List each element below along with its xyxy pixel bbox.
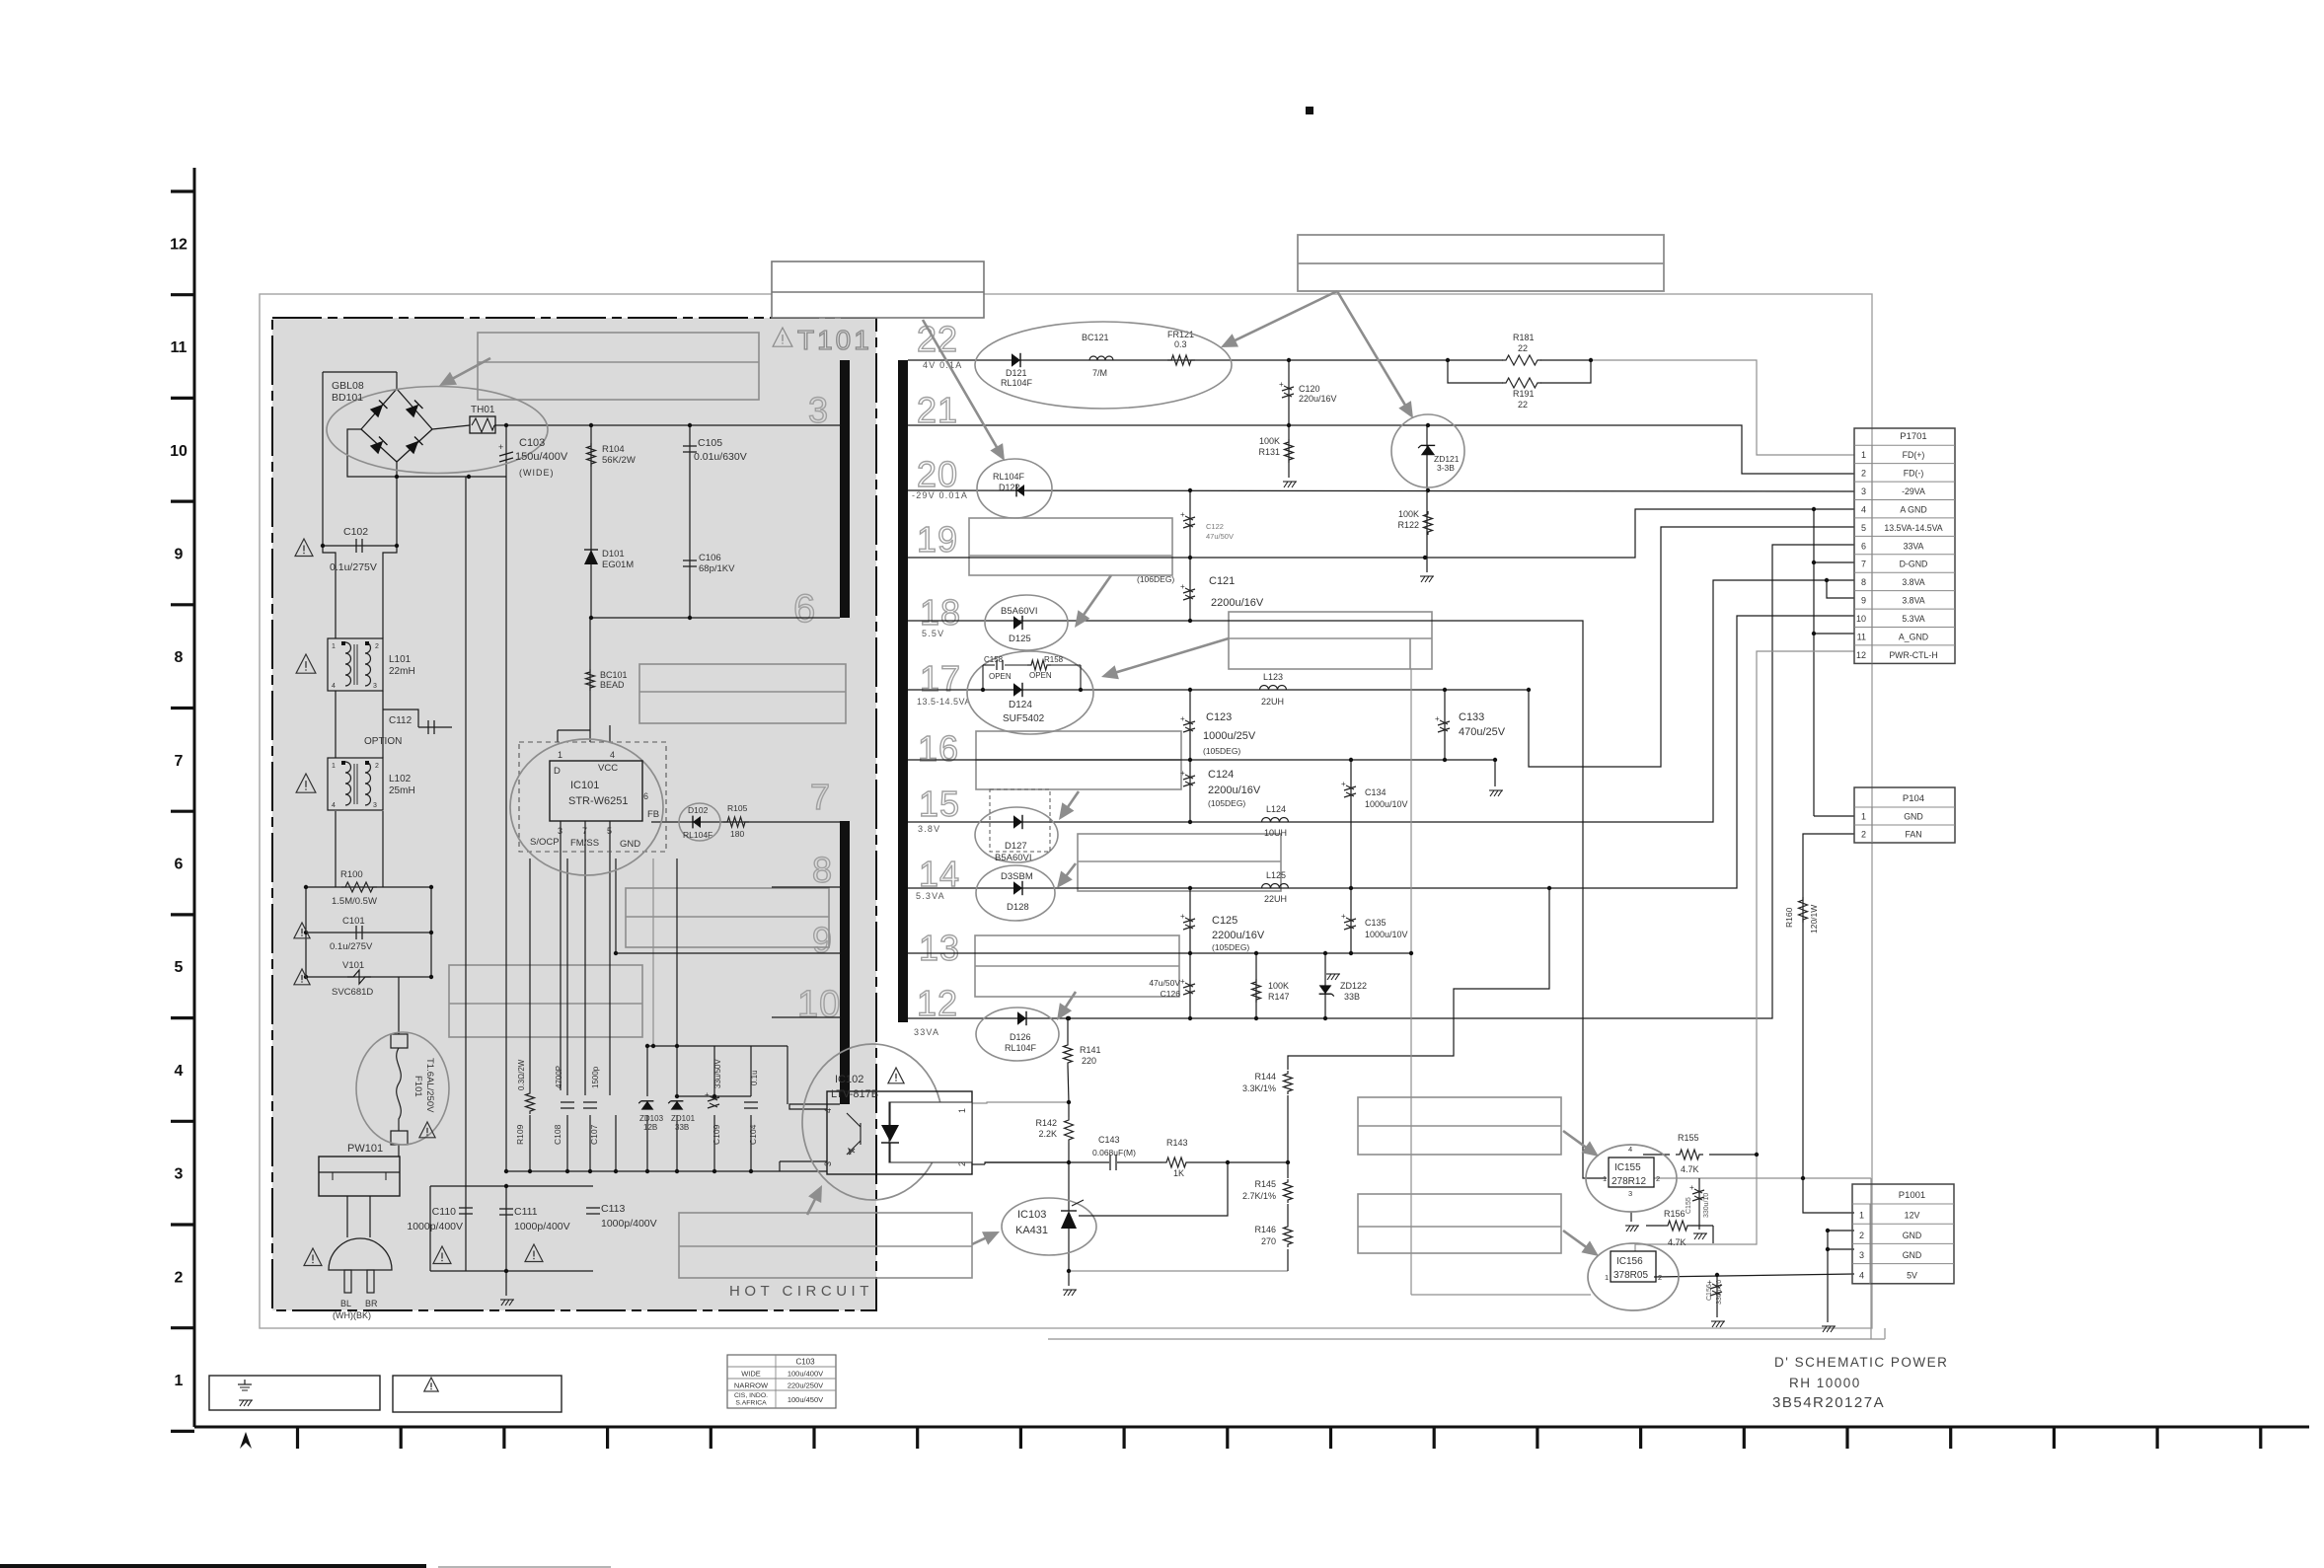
svg-text:5: 5 xyxy=(175,959,184,976)
svg-text:-29V 0.01A: -29V 0.01A xyxy=(912,490,968,500)
svg-text:R191: R191 xyxy=(1513,389,1535,399)
svg-text:BL: BL xyxy=(340,1299,351,1308)
svg-text:278R12: 278R12 xyxy=(1612,1176,1646,1187)
svg-text:2: 2 xyxy=(375,763,379,770)
svg-text:1: 1 xyxy=(558,750,562,760)
svg-text:5.5V: 5.5V xyxy=(922,629,944,638)
svg-text:22: 22 xyxy=(1518,343,1528,353)
svg-text:+: + xyxy=(1689,1183,1694,1192)
svg-text:1000u/25V: 1000u/25V xyxy=(1203,730,1256,742)
svg-text:3: 3 xyxy=(373,802,377,809)
svg-text:L101: L101 xyxy=(389,654,412,665)
svg-text:22UH: 22UH xyxy=(1264,894,1287,904)
svg-text:2: 2 xyxy=(1861,469,1866,479)
svg-text:-29VA: -29VA xyxy=(1902,486,1925,496)
svg-text:BD101: BD101 xyxy=(332,392,363,404)
svg-text:CIS, INDO.: CIS, INDO. xyxy=(734,1392,768,1399)
svg-text:1: 1 xyxy=(1861,812,1866,822)
svg-text:1500p: 1500p xyxy=(591,1066,600,1088)
svg-text:1: 1 xyxy=(332,763,336,770)
svg-text:2: 2 xyxy=(1861,830,1866,840)
svg-text:D' SCHEMATIC POWER: D' SCHEMATIC POWER xyxy=(1774,1355,1948,1370)
svg-text:47u/50V: 47u/50V xyxy=(1149,978,1180,988)
svg-text:8: 8 xyxy=(1861,577,1866,587)
svg-text:378R05: 378R05 xyxy=(1613,1270,1648,1281)
svg-text:R147: R147 xyxy=(1268,992,1290,1002)
svg-text:F101: F101 xyxy=(412,1076,423,1097)
svg-text:+: + xyxy=(1180,510,1185,519)
svg-text:V101: V101 xyxy=(342,960,364,971)
svg-text:GND: GND xyxy=(1904,812,1923,822)
svg-text:C123: C123 xyxy=(1206,711,1232,723)
svg-text:OPEN: OPEN xyxy=(1029,671,1052,680)
svg-text:D125: D125 xyxy=(1009,634,1031,644)
svg-text:C126: C126 xyxy=(1161,989,1181,999)
svg-text:PWR-CTL-H: PWR-CTL-H xyxy=(1889,650,1937,660)
svg-text:15: 15 xyxy=(919,784,960,824)
svg-text:2: 2 xyxy=(1859,1231,1864,1240)
svg-text:4.7K: 4.7K xyxy=(1681,1164,1699,1174)
svg-text:C111: C111 xyxy=(514,1206,538,1218)
svg-text:IC155: IC155 xyxy=(1614,1162,1641,1173)
svg-text:56K/2W: 56K/2W xyxy=(602,455,636,466)
svg-text:17: 17 xyxy=(920,658,961,699)
svg-text:+: + xyxy=(1435,714,1440,723)
svg-text:1: 1 xyxy=(332,643,336,650)
svg-text:C105: C105 xyxy=(698,437,722,449)
svg-text:3: 3 xyxy=(1859,1250,1864,1260)
svg-text:R181: R181 xyxy=(1513,333,1535,342)
svg-text:RH 10000: RH 10000 xyxy=(1789,1376,1861,1390)
svg-text:8: 8 xyxy=(812,850,833,890)
svg-text:220: 220 xyxy=(1082,1056,1096,1066)
svg-text:1000u/10V: 1000u/10V xyxy=(1365,799,1408,809)
svg-text:LTV-817B: LTV-817B xyxy=(831,1088,878,1100)
svg-text:1: 1 xyxy=(1861,450,1866,460)
svg-text:+: + xyxy=(1707,1278,1712,1287)
svg-text:L125: L125 xyxy=(1266,870,1286,880)
svg-text:150u/400V: 150u/400V xyxy=(515,451,568,463)
svg-text:12V: 12V xyxy=(1905,1211,1920,1221)
svg-text:(106DEG): (106DEG) xyxy=(1137,574,1174,584)
svg-text:6: 6 xyxy=(1861,541,1866,551)
svg-text:2: 2 xyxy=(375,643,379,650)
svg-text:RL104F: RL104F xyxy=(1001,378,1033,388)
svg-text:3: 3 xyxy=(558,826,562,836)
svg-text:19: 19 xyxy=(917,519,958,560)
svg-text:VCC: VCC xyxy=(598,763,618,774)
svg-text:2200u/16V: 2200u/16V xyxy=(1212,930,1265,941)
svg-text:R105: R105 xyxy=(727,803,748,813)
svg-text:1: 1 xyxy=(1605,1273,1609,1282)
svg-text:5: 5 xyxy=(1861,523,1866,533)
svg-text:+: + xyxy=(1180,714,1185,723)
svg-text:+: + xyxy=(1279,380,1284,389)
svg-text:BEAD: BEAD xyxy=(600,680,625,690)
svg-text:2.2K: 2.2K xyxy=(1038,1129,1057,1139)
svg-text:3.3K/1%: 3.3K/1% xyxy=(1242,1083,1276,1093)
svg-text:0.3Ω/2W: 0.3Ω/2W xyxy=(517,1059,526,1090)
svg-text:6: 6 xyxy=(643,791,648,801)
svg-text:10: 10 xyxy=(797,984,841,1025)
svg-text:C104: C104 xyxy=(748,1124,758,1145)
svg-text:B5A60VI: B5A60VI xyxy=(1001,606,1038,617)
svg-text:(105DEG): (105DEG) xyxy=(1212,942,1249,952)
svg-text:12B: 12B xyxy=(643,1123,657,1132)
svg-text:D3SBM: D3SBM xyxy=(1001,871,1033,882)
svg-text:BR: BR xyxy=(365,1299,378,1308)
svg-text:11: 11 xyxy=(171,339,187,356)
svg-text:9: 9 xyxy=(812,920,833,960)
svg-text:330u/10: 330u/10 xyxy=(1703,1193,1710,1218)
svg-text:RL104F: RL104F xyxy=(1005,1043,1037,1053)
svg-text:D121: D121 xyxy=(1006,368,1027,378)
svg-text:21: 21 xyxy=(917,390,958,430)
svg-text:2200u/16V: 2200u/16V xyxy=(1208,784,1261,796)
svg-text:GND: GND xyxy=(1903,1231,1922,1240)
svg-text:L102: L102 xyxy=(389,774,412,784)
svg-text:3B54R20127A: 3B54R20127A xyxy=(1772,1394,1885,1411)
svg-text:GND: GND xyxy=(620,839,640,850)
svg-text:33B: 33B xyxy=(1344,992,1360,1002)
svg-text:D-GND: D-GND xyxy=(1900,560,1928,569)
svg-text:+: + xyxy=(705,1090,710,1099)
svg-text:C158: C158 xyxy=(984,655,1004,664)
svg-text:4: 4 xyxy=(1628,1145,1632,1154)
svg-text:0.1u: 0.1u xyxy=(750,1070,759,1085)
svg-text:SVC681D: SVC681D xyxy=(332,987,373,998)
svg-text:B5A60VI: B5A60VI xyxy=(995,853,1032,863)
svg-text:ZD103: ZD103 xyxy=(639,1114,664,1123)
svg-text:P1701: P1701 xyxy=(1900,431,1926,442)
svg-text:R109: R109 xyxy=(515,1124,525,1145)
svg-text:R131: R131 xyxy=(1258,447,1280,457)
svg-text:100u/450V: 100u/450V xyxy=(787,1395,823,1404)
svg-text:P1001: P1001 xyxy=(1899,1190,1925,1201)
svg-text:HOT CIRCUIT: HOT CIRCUIT xyxy=(729,1283,873,1300)
svg-text:100u/400V: 100u/400V xyxy=(787,1370,823,1379)
svg-text:C101: C101 xyxy=(342,916,365,927)
svg-text:A_GND: A_GND xyxy=(1899,632,1928,641)
svg-text:R100: R100 xyxy=(340,869,363,880)
svg-text:FM/SS: FM/SS xyxy=(570,838,599,849)
svg-text:470u/25V: 470u/25V xyxy=(1459,726,1506,738)
svg-text:12: 12 xyxy=(917,983,958,1023)
svg-text:100K: 100K xyxy=(1259,436,1280,446)
svg-text:33B: 33B xyxy=(675,1123,689,1132)
svg-text:C122: C122 xyxy=(1206,522,1224,531)
svg-text:C155: C155 xyxy=(1686,1197,1692,1214)
svg-text:C121: C121 xyxy=(1209,575,1235,587)
svg-text:R146: R146 xyxy=(1254,1225,1276,1234)
svg-text:OPTION: OPTION xyxy=(364,736,402,747)
svg-text:7: 7 xyxy=(582,826,587,836)
svg-text:D: D xyxy=(554,766,561,777)
svg-text:C113: C113 xyxy=(601,1203,625,1215)
svg-text:STR-W6251: STR-W6251 xyxy=(568,795,629,807)
svg-text:R141: R141 xyxy=(1080,1045,1101,1055)
svg-text:C103: C103 xyxy=(795,1358,815,1367)
svg-text:4: 4 xyxy=(332,683,336,690)
svg-text:C112: C112 xyxy=(389,715,412,726)
svg-text:47u/50V: 47u/50V xyxy=(1206,532,1234,541)
svg-text:10: 10 xyxy=(1856,614,1866,624)
svg-text:7/M: 7/M xyxy=(1092,368,1107,378)
svg-text:D102: D102 xyxy=(688,805,709,815)
svg-text:2: 2 xyxy=(957,1161,967,1166)
svg-text:C109: C109 xyxy=(712,1124,721,1145)
svg-text:1: 1 xyxy=(175,1373,184,1389)
svg-text:3.8V: 3.8V xyxy=(918,824,940,834)
svg-text:+: + xyxy=(1180,912,1185,921)
svg-text:+: + xyxy=(1341,780,1346,788)
svg-text:S/OCP: S/OCP xyxy=(530,837,560,848)
svg-text:FD(+): FD(+) xyxy=(1903,450,1925,460)
svg-text:7: 7 xyxy=(1861,560,1866,569)
svg-text:3.8VA: 3.8VA xyxy=(1902,596,1924,606)
svg-text:1000u/10V: 1000u/10V xyxy=(1365,930,1408,939)
svg-text:ZD101: ZD101 xyxy=(671,1114,696,1123)
svg-text:2200u/16V: 2200u/16V xyxy=(1211,597,1264,609)
svg-text:PW101: PW101 xyxy=(347,1143,383,1155)
svg-text:R158: R158 xyxy=(1044,655,1064,664)
svg-text:2.7K/1%: 2.7K/1% xyxy=(1242,1191,1276,1201)
svg-text:FD(-): FD(-) xyxy=(1904,469,1924,479)
svg-text:L124: L124 xyxy=(1266,804,1286,814)
svg-text:18: 18 xyxy=(920,592,961,633)
svg-text:R145: R145 xyxy=(1254,1179,1276,1189)
svg-text:2: 2 xyxy=(1656,1174,1660,1183)
svg-text:+: + xyxy=(1180,769,1185,778)
svg-text:2: 2 xyxy=(1658,1273,1662,1282)
svg-text:22: 22 xyxy=(1518,400,1528,410)
svg-text:68p/1KV: 68p/1KV xyxy=(699,563,735,574)
svg-text:(105DEG): (105DEG) xyxy=(1203,746,1240,756)
svg-text:3: 3 xyxy=(1628,1189,1632,1198)
svg-text:3: 3 xyxy=(373,683,377,690)
svg-text:D124: D124 xyxy=(1009,700,1032,710)
svg-text:C133: C133 xyxy=(1459,711,1484,723)
svg-text:D127: D127 xyxy=(1005,841,1027,852)
svg-text:C106: C106 xyxy=(699,553,721,563)
svg-text:3.8VA: 3.8VA xyxy=(1902,577,1924,587)
svg-text:NARROW: NARROW xyxy=(734,1381,769,1390)
svg-text:10UH: 10UH xyxy=(1264,828,1287,838)
svg-text:C134: C134 xyxy=(1365,787,1387,797)
svg-text:RL104F: RL104F xyxy=(683,830,712,840)
svg-text:(WH)(BK): (WH)(BK) xyxy=(333,1310,371,1320)
svg-text:10: 10 xyxy=(170,443,187,460)
svg-text:25mH: 25mH xyxy=(389,785,415,796)
svg-text:C107: C107 xyxy=(589,1124,599,1145)
svg-text:(WIDE): (WIDE) xyxy=(519,468,555,478)
svg-text:7: 7 xyxy=(175,753,184,770)
svg-text:33VA: 33VA xyxy=(1904,541,1924,551)
svg-text:S.AFRICA: S.AFRICA xyxy=(735,1400,767,1407)
svg-text:1K: 1K xyxy=(1173,1168,1184,1178)
svg-text:T1.6AL/250V: T1.6AL/250V xyxy=(424,1058,435,1113)
svg-text:A GND: A GND xyxy=(1900,504,1926,514)
svg-text:180: 180 xyxy=(730,829,744,839)
svg-text:+: + xyxy=(1341,912,1346,921)
svg-text:IC101: IC101 xyxy=(570,780,599,791)
svg-text:FAN: FAN xyxy=(1905,830,1921,840)
svg-text:C125: C125 xyxy=(1212,915,1237,927)
svg-text:1: 1 xyxy=(957,1108,967,1113)
svg-text:120/1W: 120/1W xyxy=(1809,905,1819,933)
svg-text:+: + xyxy=(498,442,503,452)
svg-text:22mH: 22mH xyxy=(389,666,415,677)
svg-text:C135: C135 xyxy=(1365,918,1387,928)
svg-text:8: 8 xyxy=(175,649,184,666)
svg-text:0.01u/630V: 0.01u/630V xyxy=(694,451,747,463)
svg-text:ZD122: ZD122 xyxy=(1340,981,1367,991)
svg-text:5.3VA: 5.3VA xyxy=(1902,614,1924,624)
svg-text:0.068uF(M): 0.068uF(M) xyxy=(1092,1148,1136,1157)
svg-text:4.7K: 4.7K xyxy=(1668,1237,1687,1247)
svg-text:C124: C124 xyxy=(1208,769,1234,781)
svg-text:R104: R104 xyxy=(602,444,625,455)
svg-text:R144: R144 xyxy=(1254,1072,1276,1082)
svg-text:IC103: IC103 xyxy=(1017,1209,1046,1221)
svg-text:16: 16 xyxy=(918,728,959,769)
svg-text:6: 6 xyxy=(793,587,816,631)
svg-text:9: 9 xyxy=(1861,596,1866,606)
svg-text:20: 20 xyxy=(917,454,958,494)
svg-text:0.1u/275V: 0.1u/275V xyxy=(330,561,377,573)
svg-text:C120: C120 xyxy=(1299,384,1320,394)
svg-text:4: 4 xyxy=(610,750,615,760)
svg-text:R160: R160 xyxy=(1784,907,1794,928)
svg-text:11: 11 xyxy=(1857,632,1866,641)
svg-text:C143: C143 xyxy=(1098,1135,1120,1145)
svg-text:4V 0.1A: 4V 0.1A xyxy=(923,360,962,370)
svg-text:IC102: IC102 xyxy=(835,1074,863,1085)
svg-text:1.5M/0.5W: 1.5M/0.5W xyxy=(332,896,377,907)
svg-text:13.5-14.5VA: 13.5-14.5VA xyxy=(917,697,971,707)
svg-text:4: 4 xyxy=(1861,504,1866,514)
svg-text:3: 3 xyxy=(823,1161,833,1166)
svg-text:12: 12 xyxy=(170,236,187,253)
svg-text:1: 1 xyxy=(1859,1211,1864,1221)
svg-text:2: 2 xyxy=(175,1269,184,1286)
svg-text:3: 3 xyxy=(808,390,829,430)
svg-text:12: 12 xyxy=(1856,650,1866,660)
svg-text:4700P: 4700P xyxy=(555,1066,563,1088)
svg-text:22UH: 22UH xyxy=(1261,697,1284,707)
svg-text:TH01: TH01 xyxy=(471,405,495,415)
svg-text:5V: 5V xyxy=(1907,1270,1917,1280)
svg-text:D126: D126 xyxy=(1010,1032,1031,1042)
svg-text:IC156: IC156 xyxy=(1616,1256,1643,1267)
svg-text:WIDE: WIDE xyxy=(741,1370,761,1379)
svg-text:R143: R143 xyxy=(1166,1138,1188,1148)
svg-text:5.3VA: 5.3VA xyxy=(916,891,945,901)
svg-text:1000p/400V: 1000p/400V xyxy=(601,1218,657,1230)
svg-text:FB: FB xyxy=(647,809,659,820)
svg-text:GND: GND xyxy=(1903,1250,1922,1260)
svg-text:C102: C102 xyxy=(343,526,368,538)
svg-text:+: + xyxy=(1180,582,1185,591)
svg-text:T101: T101 xyxy=(797,325,872,355)
svg-text:R142: R142 xyxy=(1035,1118,1057,1128)
svg-text:1000p/400V: 1000p/400V xyxy=(407,1221,463,1232)
svg-text:1: 1 xyxy=(1603,1174,1607,1183)
svg-text:4: 4 xyxy=(332,802,336,809)
svg-text:5: 5 xyxy=(607,826,612,836)
svg-text:13: 13 xyxy=(919,928,960,968)
svg-text:100K: 100K xyxy=(1268,981,1289,991)
svg-text:4: 4 xyxy=(1859,1270,1864,1280)
svg-text:C103: C103 xyxy=(519,437,545,449)
svg-text:100K: 100K xyxy=(1398,509,1419,519)
svg-text:33u/50V: 33u/50V xyxy=(713,1059,722,1088)
svg-text:C108: C108 xyxy=(553,1124,562,1145)
svg-text:RL104F: RL104F xyxy=(993,472,1025,482)
svg-text:4: 4 xyxy=(823,1108,833,1113)
svg-text:220u/250V: 220u/250V xyxy=(787,1381,823,1390)
svg-text:SUF5402: SUF5402 xyxy=(1003,713,1045,724)
svg-text:3: 3 xyxy=(1861,486,1866,496)
svg-text:220u/16V: 220u/16V xyxy=(1299,394,1337,404)
svg-text:R122: R122 xyxy=(1397,520,1419,530)
svg-text:BC101: BC101 xyxy=(600,670,628,680)
svg-text:0.3: 0.3 xyxy=(1174,339,1187,349)
svg-text:BC121: BC121 xyxy=(1082,333,1109,342)
svg-text:P104: P104 xyxy=(1903,793,1924,804)
svg-text:OPEN: OPEN xyxy=(989,672,1012,681)
svg-text:7: 7 xyxy=(810,777,831,817)
svg-text:3: 3 xyxy=(175,1166,184,1183)
svg-text:EG01M: EG01M xyxy=(602,560,634,570)
svg-text:0.1u/275V: 0.1u/275V xyxy=(330,941,373,952)
svg-text:R156: R156 xyxy=(1664,1209,1686,1219)
svg-text:(105DEG): (105DEG) xyxy=(1208,798,1245,808)
svg-text:270: 270 xyxy=(1261,1236,1276,1246)
svg-text:R155: R155 xyxy=(1678,1133,1699,1143)
svg-text:D128: D128 xyxy=(1007,902,1029,913)
svg-text:33VA: 33VA xyxy=(914,1027,939,1037)
svg-text:1000p/400V: 1000p/400V xyxy=(514,1221,570,1232)
svg-text:C110: C110 xyxy=(432,1206,456,1218)
svg-text:+: + xyxy=(1180,977,1185,986)
svg-text:6: 6 xyxy=(175,857,184,873)
svg-text:L123: L123 xyxy=(1263,672,1283,682)
svg-text:4: 4 xyxy=(175,1063,184,1080)
svg-text:3-3B: 3-3B xyxy=(1437,463,1455,473)
svg-text:GBL08: GBL08 xyxy=(332,380,364,392)
svg-text:9: 9 xyxy=(175,547,184,563)
svg-text:22: 22 xyxy=(917,319,958,359)
svg-text:D101: D101 xyxy=(602,549,625,560)
svg-text:13.5VA-14.5VA: 13.5VA-14.5VA xyxy=(1884,523,1942,533)
svg-text:KA431: KA431 xyxy=(1015,1225,1048,1236)
